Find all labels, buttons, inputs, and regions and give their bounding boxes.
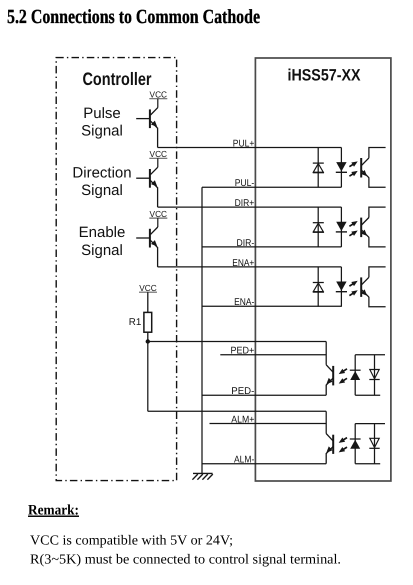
opto LED (cathode down) [336, 207, 347, 247]
junction node R1/output bus [146, 339, 150, 343]
resistor R1 [144, 292, 152, 341]
transistor Q2 (Direction) [136, 158, 158, 207]
svg-text:Signal: Signal [81, 182, 123, 199]
wire DIR+ [158, 198, 342, 209]
svg-text:R1: R1 [129, 317, 142, 328]
opto LED (cathode down) [336, 267, 347, 307]
Direction Signal label [72, 164, 131, 199]
svg-text:Direction: Direction [72, 164, 131, 181]
svg-text:ENA-: ENA- [234, 297, 254, 308]
optocoupler ENA [313, 267, 386, 307]
transistor Q1 (Pulse) [136, 99, 158, 148]
internal LED (cathode up) [350, 355, 385, 395]
optocoupler DIR [313, 207, 386, 247]
phototransistor [361, 207, 386, 247]
driver solid box iHSS57-XX [255, 58, 391, 481]
common cathode bus wire [201, 187, 203, 473]
svg-text:Signal: Signal [81, 242, 123, 259]
phototransistor [361, 267, 386, 307]
svg-text:R(3~5K) must be connected to c: R(3~5K) must be connected to control sig… [30, 551, 341, 566]
svg-text:DIR-: DIR- [237, 238, 255, 249]
protection diode (anode down) [313, 148, 324, 188]
wire DIR- [202, 238, 341, 249]
wire R1 to PED opto collector [148, 341, 326, 343]
svg-text:DIR+: DIR+ [235, 198, 255, 209]
svg-text:Controller: Controller [83, 69, 152, 89]
protection diode (anode down) [313, 267, 324, 307]
wire PED- [202, 386, 326, 397]
svg-text:iHSS57-XX: iHSS57-XX [288, 66, 361, 84]
svg-text:Pulse: Pulse [83, 105, 121, 122]
wire ENA- [202, 297, 341, 308]
svg-text:Enable: Enable [79, 224, 126, 241]
controller dashed box [56, 58, 176, 481]
wire PUL- [202, 178, 341, 189]
svg-text:Remark:: Remark: [28, 503, 79, 519]
internal LED (cathode up) [350, 424, 385, 464]
svg-text:PUL+: PUL+ [233, 138, 255, 149]
wire ALM+ [210, 414, 327, 425]
svg-text:ENA+: ENA+ [232, 258, 254, 269]
svg-text:PUL-: PUL- [235, 178, 255, 189]
svg-text:PED-: PED- [231, 386, 254, 397]
svg-text:Signal: Signal [81, 123, 123, 140]
optocoupler PUL [313, 148, 386, 188]
protection diode (cathode down) [369, 355, 379, 395]
light arrows [349, 161, 357, 176]
optocoupler ALM [326, 411, 385, 463]
wire PUL+ [158, 138, 342, 149]
ground symbol [192, 473, 212, 479]
protection diode (anode down) [313, 207, 324, 247]
svg-text:VCC is compatible with 5V or 2: VCC is compatible with 5V or 24V; [30, 532, 233, 547]
light arrows [339, 438, 347, 453]
svg-text:5.2 Connections to Common Cath: 5.2 Connections to Common Cathode [7, 6, 260, 28]
phototransistor (output) [326, 342, 333, 396]
transistor Q3 (Enable) [136, 218, 158, 267]
wire ALM- [202, 455, 326, 466]
svg-text:ALM+: ALM+ [231, 414, 254, 425]
Pulse Signal label [81, 105, 123, 140]
svg-text:VCC: VCC [139, 283, 157, 293]
svg-text:ALM-: ALM- [234, 455, 254, 466]
opto LED (cathode down) [336, 148, 347, 188]
wire ENA+ [158, 258, 342, 269]
phototransistor [361, 148, 386, 188]
wire PED+ [220, 346, 326, 357]
protection diode (cathode down) [369, 424, 379, 464]
light arrows [339, 369, 347, 384]
wire R1 down to ALM opto [147, 342, 149, 412]
phototransistor (output) [326, 411, 333, 463]
svg-text:PED+: PED+ [231, 346, 255, 357]
optocoupler PED [326, 342, 385, 396]
light arrows [349, 281, 357, 296]
light arrows [349, 221, 357, 236]
wire R1 to ALM opto collector [148, 410, 326, 412]
Enable Signal label [79, 224, 126, 259]
